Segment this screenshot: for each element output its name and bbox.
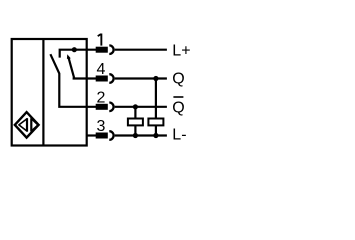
svg-text:2: 2 [96, 89, 105, 106]
svg-text:L-: L- [172, 127, 186, 144]
svg-text:Q: Q [172, 70, 184, 87]
svg-text:3: 3 [96, 118, 105, 135]
svg-text:L+: L+ [172, 43, 190, 60]
svg-text:Q: Q [172, 99, 184, 116]
svg-text:4: 4 [96, 61, 105, 78]
